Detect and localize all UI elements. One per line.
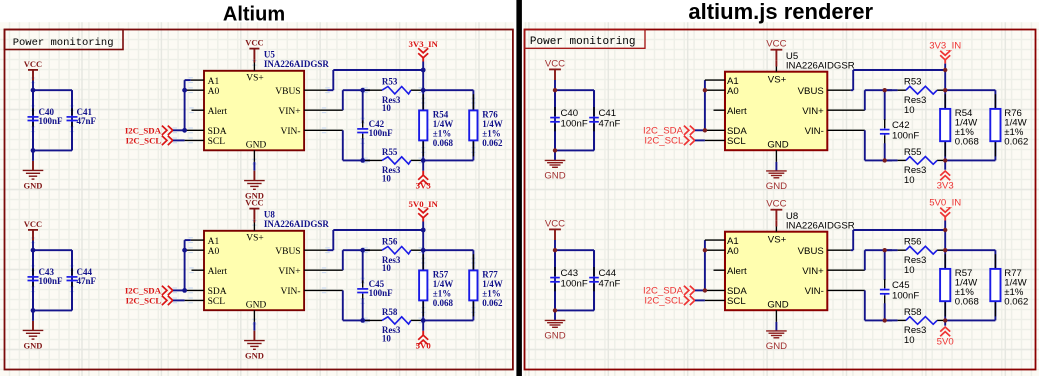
svg-text:I2C_SCL: I2C_SCL bbox=[644, 136, 684, 147]
resistor R55 Res3 10 (zig-zag) bbox=[887, 147, 945, 186]
power symbol VCC (VS+ of U8) bbox=[766, 199, 786, 227]
junction R55 right bbox=[421, 158, 426, 163]
op-amp/monitor IC U8 INA226AIDGSR (body) bbox=[725, 232, 827, 311]
wire A1/A0/SDA tie bbox=[704, 240, 706, 290]
svg-text:INA226AIDGSR: INA226AIDGSR bbox=[786, 61, 855, 72]
wire VIN- to filter bbox=[865, 290, 892, 320]
svg-text:GND: GND bbox=[767, 300, 788, 311]
ground symbol below C40 bbox=[544, 150, 565, 181]
title Altium bbox=[223, 4, 285, 26]
svg-text:1/4W: 1/4W bbox=[433, 279, 454, 289]
junction C42 top bbox=[883, 88, 887, 92]
text frame "Power monitoring" bbox=[5, 30, 124, 50]
svg-text:R54: R54 bbox=[433, 110, 449, 120]
svg-text:VIN-: VIN- bbox=[805, 286, 824, 297]
svg-text:I2C_SCL: I2C_SCL bbox=[126, 296, 162, 306]
svg-text:GND: GND bbox=[544, 170, 565, 181]
svg-text:100nF: 100nF bbox=[892, 291, 919, 302]
pin VIN- bbox=[281, 127, 343, 137]
svg-text:100nF: 100nF bbox=[39, 116, 64, 126]
hotspot markers bbox=[31, 60, 476, 165]
wire A1/A0/SDA tie bbox=[704, 80, 706, 130]
pin SCL bbox=[705, 296, 746, 307]
svg-text:R57: R57 bbox=[433, 270, 449, 280]
svg-text:C43: C43 bbox=[561, 268, 579, 279]
capacitor C40 100nF bbox=[550, 90, 588, 150]
svg-text:1/4W: 1/4W bbox=[433, 119, 454, 129]
svg-text:VBUS: VBUS bbox=[798, 86, 824, 97]
svg-text:VCC: VCC bbox=[245, 38, 263, 48]
svg-text:3V3_IN: 3V3_IN bbox=[929, 41, 961, 52]
wire to parallel shunt R77 bbox=[423, 250, 473, 320]
svg-text:GND: GND bbox=[246, 301, 267, 311]
svg-text:100nF: 100nF bbox=[369, 288, 394, 298]
ground symbol below U5 bbox=[766, 162, 787, 192]
svg-text:5V0: 5V0 bbox=[416, 340, 432, 350]
svg-text:Alert: Alert bbox=[208, 107, 228, 117]
resistor R53 Res3 10 (zig-zag) bbox=[365, 77, 423, 114]
capacitor C42 100nF (filter) bbox=[880, 90, 919, 160]
power net 5V0_IN (input) bbox=[409, 199, 439, 230]
wire VIN+ to filter bbox=[343, 90, 370, 110]
svg-text:0.068: 0.068 bbox=[433, 138, 454, 148]
svg-text:SCL: SCL bbox=[727, 136, 746, 147]
svg-text:A1: A1 bbox=[208, 77, 220, 87]
svg-text:C40: C40 bbox=[561, 108, 579, 119]
svg-text:C44: C44 bbox=[599, 268, 617, 279]
svg-text:VCC: VCC bbox=[545, 58, 565, 69]
svg-text:100nF: 100nF bbox=[892, 131, 919, 142]
svg-text:SCL: SCL bbox=[208, 137, 226, 147]
power symbol VCC (C43/C44 rail) bbox=[545, 218, 565, 250]
pin A1 bbox=[185, 237, 220, 247]
svg-text:0.062: 0.062 bbox=[1004, 297, 1028, 308]
junction at A0 bbox=[182, 248, 187, 253]
svg-text:VIN+: VIN+ bbox=[278, 267, 300, 277]
resistor R55 Res3 10 (zig-zag) bbox=[365, 147, 423, 184]
wire A1/A0/SDA tie bbox=[184, 240, 186, 290]
svg-text:10: 10 bbox=[904, 105, 915, 116]
title altium.js renderer bbox=[688, 0, 873, 24]
svg-text:10: 10 bbox=[904, 335, 915, 346]
svg-text:R56: R56 bbox=[382, 237, 398, 247]
power net 3V3_IN (input) bbox=[929, 41, 961, 71]
power net 5V0 (output) bbox=[416, 320, 432, 350]
svg-text:100nF: 100nF bbox=[561, 279, 588, 290]
pin A0 bbox=[185, 247, 220, 257]
svg-text:±1%: ±1% bbox=[482, 129, 500, 139]
pin VS+ bbox=[768, 227, 787, 246]
junction C42 bottom bbox=[360, 158, 365, 163]
power symbol VCC (C40/C41 rail) bbox=[545, 58, 565, 90]
text frame "Power monitoring" bbox=[525, 30, 646, 49]
power symbol VCC (C40/C41 rail) bbox=[24, 59, 42, 90]
ground symbol below C40 bbox=[23, 150, 44, 190]
capacitor C44 47nF bbox=[589, 250, 620, 310]
net label I2C_SCL (port chevrons) bbox=[644, 136, 705, 147]
svg-text:1/4W: 1/4W bbox=[482, 279, 503, 289]
power net 3V3 (output) bbox=[937, 160, 954, 191]
svg-text:SCL: SCL bbox=[727, 296, 746, 307]
svg-text:GND: GND bbox=[767, 140, 788, 151]
net label I2C_SDA (port chevrons) bbox=[125, 126, 185, 136]
resistor R54 1/4W shunt (box) bbox=[419, 110, 453, 149]
svg-text:Power monitoring: Power monitoring bbox=[530, 36, 636, 48]
wire VIN+ to filter bbox=[343, 250, 370, 270]
svg-text:SDA: SDA bbox=[208, 287, 227, 297]
svg-text:0.062: 0.062 bbox=[482, 138, 503, 148]
junction at VCC/C43 bbox=[31, 248, 36, 253]
svg-text:100nF: 100nF bbox=[561, 119, 588, 130]
svg-text:±1%: ±1% bbox=[433, 129, 451, 139]
svg-text:A0: A0 bbox=[727, 246, 739, 257]
svg-text:VIN-: VIN- bbox=[805, 126, 824, 137]
svg-text:A0: A0 bbox=[727, 86, 739, 97]
pin SDA bbox=[185, 127, 227, 137]
junction C45 top bbox=[360, 248, 365, 253]
pin A1 bbox=[185, 77, 220, 87]
svg-text:Alert: Alert bbox=[208, 267, 228, 277]
divider bar bbox=[516, 0, 522, 376]
svg-text:R53: R53 bbox=[904, 77, 922, 88]
power net 5V0_IN (input) bbox=[929, 197, 961, 230]
svg-text:I2C_SCL: I2C_SCL bbox=[126, 136, 162, 146]
svg-text:VS+: VS+ bbox=[246, 73, 264, 83]
capacitor C42 100nF (filter) bbox=[357, 90, 393, 160]
sheet background left bbox=[0, 22, 514, 376]
pin Alert (no connect) bbox=[192, 107, 228, 117]
pin VIN- bbox=[805, 126, 865, 137]
junction at SDA bbox=[182, 128, 187, 133]
svg-text:A1: A1 bbox=[208, 237, 220, 247]
junction at A0 bbox=[703, 88, 707, 92]
power net 5V0 (output) bbox=[937, 320, 954, 347]
svg-text:VIN-: VIN- bbox=[281, 127, 301, 137]
svg-text:GND: GND bbox=[24, 180, 43, 190]
pin VS+ bbox=[246, 223, 264, 244]
net label I2C_SCL (port chevrons) bbox=[126, 136, 185, 146]
svg-text:VCC: VCC bbox=[24, 219, 42, 229]
pin VBUS bbox=[798, 246, 851, 257]
junction R53 right bbox=[943, 88, 947, 92]
wire to parallel shunt R76 bbox=[945, 90, 995, 160]
wire C43/C44 parallel group bbox=[33, 250, 72, 310]
junction R58 right bbox=[943, 318, 947, 322]
svg-text:I2C_SCL: I2C_SCL bbox=[644, 296, 684, 307]
pin VBUS bbox=[275, 87, 327, 97]
pin Alert (no connect) bbox=[192, 267, 228, 277]
junction 5V0_IN node top bbox=[943, 228, 947, 232]
net label I2C_SCL (port chevrons) bbox=[126, 296, 185, 306]
sheet background right bbox=[523, 22, 1039, 376]
hotspot markers bbox=[31, 220, 476, 325]
svg-text:VIN+: VIN+ bbox=[802, 266, 824, 277]
svg-text:VS+: VS+ bbox=[246, 233, 264, 243]
ground symbol below U5 bbox=[244, 162, 265, 200]
svg-text:10: 10 bbox=[904, 175, 915, 186]
svg-text:VCC: VCC bbox=[766, 199, 786, 210]
svg-text:±1%: ±1% bbox=[482, 289, 500, 299]
ground symbol below C43 bbox=[23, 310, 44, 350]
svg-text:I2C_SDA: I2C_SDA bbox=[125, 126, 162, 136]
svg-text:GND: GND bbox=[24, 340, 43, 350]
pin GND of IC bbox=[246, 141, 267, 162]
svg-text:10: 10 bbox=[382, 173, 392, 183]
capacitor C44 47nF bbox=[67, 250, 97, 310]
pin Alert (no connect) bbox=[714, 106, 748, 117]
svg-text:47nF: 47nF bbox=[599, 279, 621, 290]
svg-text:I2C_SDA: I2C_SDA bbox=[125, 286, 162, 296]
pin VS+ bbox=[246, 63, 264, 84]
net label I2C_SDA (port chevrons) bbox=[643, 286, 705, 297]
junction R56 right bbox=[421, 248, 426, 253]
junction C45 top bbox=[883, 248, 887, 252]
wire VBUS to 3V3_IN node bbox=[851, 70, 946, 90]
junction at VCC/C40 bbox=[31, 88, 36, 93]
junction at SDA bbox=[703, 128, 707, 132]
wire to parallel shunt R76 bbox=[423, 90, 473, 160]
wire VBUS to 3V3_IN node bbox=[328, 70, 424, 90]
junction 3V3_IN node top bbox=[421, 68, 426, 73]
svg-text:GND: GND bbox=[766, 181, 787, 192]
pin A0 bbox=[705, 86, 739, 97]
svg-text:VCC: VCC bbox=[545, 218, 565, 229]
svg-text:altium.js renderer: altium.js renderer bbox=[688, 0, 873, 24]
svg-text:1/4W: 1/4W bbox=[482, 119, 503, 129]
svg-text:0.068: 0.068 bbox=[433, 298, 454, 308]
wire 3V3_IN vertical through shunt bbox=[944, 70, 946, 160]
svg-text:Alert: Alert bbox=[727, 266, 747, 277]
sheet border right bbox=[525, 30, 1036, 370]
svg-text:R55: R55 bbox=[904, 147, 922, 158]
svg-text:INA226AIDGSR: INA226AIDGSR bbox=[264, 219, 330, 229]
svg-text:0.062: 0.062 bbox=[482, 298, 503, 308]
svg-text:A0: A0 bbox=[208, 87, 220, 97]
junction 5V0_IN node top bbox=[421, 228, 426, 233]
junction at VCC/C40 bbox=[553, 88, 557, 92]
svg-text:R77: R77 bbox=[482, 270, 498, 280]
svg-text:0.068: 0.068 bbox=[955, 297, 979, 308]
op-amp/monitor IC U5 INA226AIDGSR (body) bbox=[204, 71, 304, 151]
svg-text:INA226AIDGSR: INA226AIDGSR bbox=[264, 59, 330, 69]
junction at VCC/C43 bbox=[553, 248, 557, 252]
svg-text:VBUS: VBUS bbox=[275, 247, 300, 257]
wire VBUS to 5V0_IN node bbox=[328, 230, 424, 250]
svg-text:10: 10 bbox=[382, 103, 392, 113]
svg-text:R53: R53 bbox=[382, 77, 398, 87]
wire C43/C44 parallel group bbox=[555, 250, 594, 310]
wire VIN- to filter bbox=[343, 290, 370, 320]
svg-text:3V3: 3V3 bbox=[937, 180, 954, 191]
resistor R76 1/4W shunt (box) bbox=[990, 108, 1028, 148]
svg-text:GND: GND bbox=[245, 350, 264, 360]
svg-text:0.068: 0.068 bbox=[955, 137, 979, 148]
pin SCL bbox=[185, 297, 226, 307]
pin VIN+ bbox=[802, 266, 865, 277]
wire VIN+ to filter bbox=[865, 250, 892, 270]
pin A1 bbox=[705, 236, 739, 247]
junction at A0 bbox=[182, 88, 187, 93]
power symbol VCC (VS+ of U5) bbox=[245, 38, 263, 63]
junction C42 top bbox=[360, 88, 365, 93]
svg-text:SCL: SCL bbox=[208, 297, 226, 307]
resistor R77 1/4W shunt (box) bbox=[469, 270, 503, 309]
pin VIN+ bbox=[802, 106, 865, 117]
net label I2C_SDA (port chevrons) bbox=[125, 286, 185, 296]
wire 3V3_IN vertical through shunt bbox=[422, 70, 424, 160]
power net 3V3 (output) bbox=[416, 160, 432, 190]
pin A1 bbox=[705, 76, 739, 87]
svg-text:VS+: VS+ bbox=[768, 235, 787, 246]
op-amp/monitor IC U8 INA226AIDGSR (body) bbox=[204, 231, 304, 310]
wire VIN- to filter bbox=[343, 130, 370, 160]
svg-text:10: 10 bbox=[382, 333, 392, 343]
svg-text:VIN+: VIN+ bbox=[802, 106, 824, 117]
svg-text:Alert: Alert bbox=[727, 106, 747, 117]
wire to parallel shunt R77 bbox=[945, 250, 995, 320]
junction R55 right bbox=[943, 158, 947, 162]
svg-text:VIN+: VIN+ bbox=[278, 107, 300, 117]
svg-text:10: 10 bbox=[382, 263, 392, 273]
resistor R57 1/4W shunt (box) bbox=[940, 268, 979, 308]
junction at GND/C43 bbox=[553, 308, 557, 312]
capacitor C43 100nF bbox=[550, 250, 588, 310]
pin A0 bbox=[185, 87, 220, 97]
svg-text:VCC: VCC bbox=[766, 39, 786, 50]
capacitor C43 100nF bbox=[28, 250, 64, 310]
junction at GND/C43 bbox=[31, 308, 36, 313]
junction C45 bottom bbox=[883, 318, 887, 322]
pin GND of IC bbox=[246, 301, 267, 322]
svg-text:GND: GND bbox=[544, 330, 565, 341]
power symbol VCC (VS+ of U5) bbox=[766, 39, 786, 67]
capacitor C41 47nF bbox=[67, 90, 97, 150]
svg-text:C45: C45 bbox=[892, 280, 910, 291]
svg-text:5V0_IN: 5V0_IN bbox=[929, 197, 961, 208]
svg-text:INA226AIDGSR: INA226AIDGSR bbox=[786, 221, 855, 232]
ground symbol below C43 bbox=[544, 310, 565, 341]
wire A1/A0/SDA tie bbox=[184, 80, 186, 130]
junction at A0 bbox=[703, 248, 707, 252]
pin GND of IC bbox=[767, 140, 788, 162]
pin Alert (no connect) bbox=[714, 266, 748, 277]
junction at SDA bbox=[703, 288, 707, 292]
wire 5V0_IN vertical through shunt bbox=[944, 230, 946, 320]
pin GND of IC bbox=[767, 300, 788, 322]
svg-text:0.062: 0.062 bbox=[1004, 137, 1028, 148]
junction R53 right bbox=[421, 88, 426, 93]
svg-text:3V3: 3V3 bbox=[416, 180, 432, 190]
svg-text:VCC: VCC bbox=[245, 198, 263, 208]
svg-text:5V0_IN: 5V0_IN bbox=[409, 199, 439, 209]
svg-text:GND: GND bbox=[766, 341, 787, 352]
junction at GND/C40 bbox=[553, 148, 557, 152]
pin SDA bbox=[705, 286, 747, 297]
resistor R58 Res3 10 (zig-zag) bbox=[887, 307, 945, 346]
junction C42 bottom bbox=[883, 158, 887, 162]
pin VBUS bbox=[798, 86, 851, 97]
net label I2C_SCL (port chevrons) bbox=[644, 296, 705, 307]
svg-text:VBUS: VBUS bbox=[798, 246, 824, 257]
svg-text:R76: R76 bbox=[482, 110, 498, 120]
svg-text:R58: R58 bbox=[382, 307, 398, 317]
svg-text:10: 10 bbox=[904, 265, 915, 276]
junction at GND/C40 bbox=[31, 148, 36, 153]
ground symbol below U8 bbox=[244, 322, 265, 360]
svg-text:100nF: 100nF bbox=[39, 276, 64, 286]
wire 5V0_IN vertical through shunt bbox=[422, 230, 424, 320]
svg-text:3V3_IN: 3V3_IN bbox=[409, 39, 439, 49]
svg-text:VCC: VCC bbox=[24, 59, 42, 69]
pin A0 bbox=[705, 246, 739, 257]
junction C45 bottom bbox=[360, 318, 365, 323]
svg-text:R58: R58 bbox=[904, 307, 922, 318]
svg-text:C42: C42 bbox=[892, 120, 910, 131]
svg-text:SDA: SDA bbox=[208, 127, 227, 137]
svg-text:VBUS: VBUS bbox=[275, 87, 300, 97]
svg-text:R55: R55 bbox=[382, 147, 398, 157]
pin SCL bbox=[705, 136, 746, 147]
svg-text:A0: A0 bbox=[208, 247, 220, 257]
resistor R58 Res3 10 (zig-zag) bbox=[365, 307, 423, 344]
wire C40/C41 parallel group bbox=[33, 90, 72, 150]
pin VBUS bbox=[275, 247, 327, 257]
ground symbol below U8 bbox=[766, 322, 787, 352]
pin VS+ bbox=[768, 67, 787, 86]
wire VIN+ to filter bbox=[865, 90, 892, 110]
svg-text:47nF: 47nF bbox=[77, 116, 97, 126]
junction 3V3_IN node top bbox=[943, 68, 947, 72]
svg-text:C41: C41 bbox=[599, 108, 617, 119]
capacitor C45 100nF (filter) bbox=[357, 250, 393, 320]
svg-text:GND: GND bbox=[246, 141, 267, 151]
resistor R56 Res3 10 (zig-zag) bbox=[887, 237, 945, 277]
pin VIN- bbox=[805, 286, 865, 297]
resistor R57 1/4W shunt (box) bbox=[419, 270, 453, 309]
power symbol VCC (VS+ of U8) bbox=[245, 198, 263, 223]
wire C40/C41 parallel group bbox=[555, 90, 594, 150]
power net 3V3_IN (input) bbox=[409, 39, 439, 70]
svg-text:U8: U8 bbox=[264, 209, 275, 219]
svg-text:R56: R56 bbox=[904, 237, 922, 248]
junction R58 right bbox=[421, 318, 426, 323]
pin SDA bbox=[705, 126, 747, 137]
svg-text:Power monitoring: Power monitoring bbox=[13, 37, 114, 49]
pin SDA bbox=[185, 287, 227, 297]
wire VBUS to 5V0_IN node bbox=[851, 230, 946, 250]
junction at SDA bbox=[182, 288, 187, 293]
pin VIN+ bbox=[278, 107, 342, 117]
resistor R53 Res3 10 (zig-zag) bbox=[887, 77, 945, 117]
capacitor C40 100nF bbox=[28, 90, 64, 150]
svg-text:VS+: VS+ bbox=[768, 75, 787, 86]
svg-text:VIN-: VIN- bbox=[281, 287, 301, 297]
resistor R76 1/4W shunt (box) bbox=[469, 110, 503, 149]
svg-text:±1%: ±1% bbox=[433, 289, 451, 299]
resistor R54 1/4W shunt (box) bbox=[940, 108, 979, 148]
power symbol VCC (C43/C44 rail) bbox=[24, 219, 42, 250]
svg-text:U5: U5 bbox=[264, 49, 275, 59]
pin VIN+ bbox=[278, 267, 342, 277]
pin SCL bbox=[185, 137, 226, 147]
junction R56 right bbox=[943, 248, 947, 252]
capacitor C45 100nF (filter) bbox=[880, 250, 919, 320]
svg-text:47nF: 47nF bbox=[77, 276, 97, 286]
sheet border left bbox=[5, 30, 513, 370]
resistor R77 1/4W shunt (box) bbox=[990, 268, 1028, 308]
op-amp/monitor IC U5 INA226AIDGSR (body) bbox=[725, 72, 827, 151]
pin VIN- bbox=[281, 287, 343, 297]
